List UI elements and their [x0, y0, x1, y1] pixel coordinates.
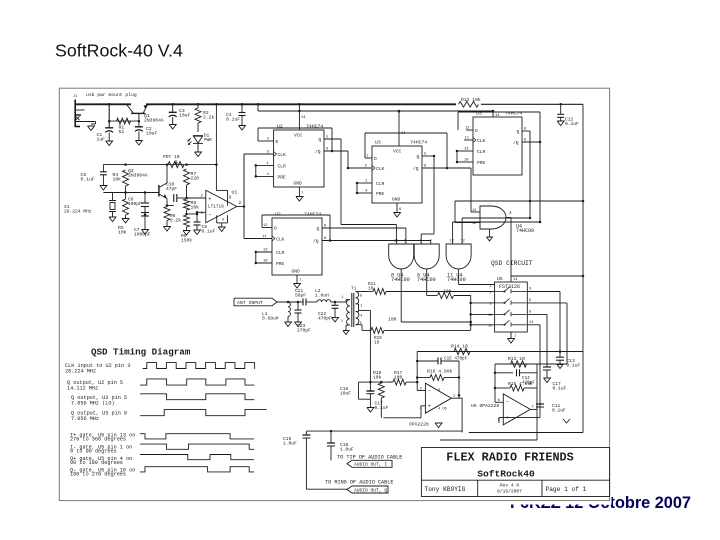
label C17a [375, 401, 389, 412]
U2a pin2 D [266, 138, 279, 146]
T1 bottom secondary wire [362, 329, 371, 331]
timing row2 label [67, 380, 123, 392]
U3a pin6 Qbar [413, 165, 447, 173]
wire q fb left [494, 364, 497, 402]
label C8 [128, 197, 142, 208]
label C9 [202, 224, 216, 235]
svg-text:1: 1 [342, 296, 344, 300]
U2b pre [255, 260, 285, 268]
svg-text:/Q: /Q [315, 149, 321, 155]
svg-text:−: − [208, 213, 211, 219]
wire control pin5 [469, 302, 494, 305]
svg-text:5: 5 [420, 240, 422, 244]
svg-text:6: 6 [222, 219, 224, 223]
label R7 [191, 171, 200, 182]
ic U2b box [272, 212, 322, 276]
label C12 [565, 117, 579, 128]
svg-text:Q: Q [319, 137, 322, 143]
label R15 [508, 381, 533, 387]
U2a pin1 CLR [255, 162, 286, 169]
label C5 [81, 172, 95, 183]
base node wire [103, 192, 158, 194]
U1 out to U2b clk [243, 154, 246, 239]
timing row7 wave [140, 455, 254, 460]
usb connector label [86, 92, 137, 98]
U3a vcc pin 14 [393, 110, 406, 154]
svg-text:Page 1 of 1: Page 1 of 1 [546, 486, 587, 493]
timing title [91, 346, 191, 357]
transformer T1 secondary [356, 292, 371, 331]
wire bottom to U5 [471, 324, 495, 326]
gate U4b output [426, 269, 428, 296]
svg-text:PRE: PRE [376, 191, 385, 197]
title block divider [421, 480, 609, 496]
label L1 [262, 311, 279, 322]
timing row8 wave [140, 467, 254, 472]
svg-text:usb pwr mount plug: usb pwr mount plug [86, 92, 137, 98]
ic U5 box [495, 276, 528, 332]
capacitor C23 [295, 302, 302, 327]
U6a output [451, 395, 462, 432]
svg-text:2.2k: 2.2k [203, 115, 214, 121]
svg-text:0.1uF: 0.1uF [565, 121, 579, 127]
ground for D1 [195, 143, 202, 156]
wire g3b [453, 221, 542, 244]
svg-text:U1: U1 [232, 190, 238, 196]
U1 input pin numbers [201, 195, 204, 217]
svg-text:CLR: CLR [477, 149, 486, 155]
U1 gnd [218, 223, 225, 232]
capacitor C5 [100, 165, 107, 190]
resistor R14 [454, 348, 470, 354]
capacitor C14 [495, 369, 537, 376]
svg-text:0.1uF: 0.1uF [552, 408, 566, 414]
wire bottom rail 3 [440, 439, 537, 441]
wire pin8 down [546, 314, 548, 367]
svg-text:GND: GND [294, 181, 303, 187]
label R16 [427, 369, 453, 375]
wire Q sample [566, 303, 568, 364]
capacitor C3 [169, 103, 177, 129]
U3b pre [456, 159, 486, 167]
svg-text:U6 OPA2228: U6 OPA2228 [471, 403, 499, 409]
U2a vcc pin 14 [294, 103, 306, 138]
label U6b pins [498, 399, 534, 423]
label R5 [118, 225, 127, 236]
U6b plus wire [499, 418, 540, 423]
U5 pin1 OE [490, 285, 492, 289]
wire v g2b [430, 241, 432, 245]
svg-text:Q: Q [517, 129, 520, 135]
wire audio bottom rail [306, 430, 462, 433]
svg-text:10k: 10k [191, 205, 200, 211]
wire bundle v g1a [395, 225, 397, 245]
svg-text:13: 13 [263, 249, 268, 253]
title block page [546, 486, 587, 493]
svg-text:10k: 10k [118, 230, 127, 236]
svg-text:U3: U3 [476, 111, 482, 117]
U5 pin6 out [527, 299, 567, 303]
svg-text:1: 1 [490, 285, 492, 289]
resistor R6 [164, 207, 171, 232]
U3b vcc [493, 111, 500, 118]
svg-text:220: 220 [443, 289, 452, 295]
U3b feedback loop [458, 112, 541, 222]
wire q fb right [536, 364, 538, 388]
svg-text:2: 2 [341, 320, 343, 324]
svg-text:10: 10 [464, 159, 469, 163]
label C22 [318, 311, 332, 322]
capacitor C1 [105, 103, 113, 145]
wire q1 bundle [340, 139, 342, 225]
resistor R12 [459, 102, 479, 108]
svg-text:270 to 360 degrees: 270 to 360 degrees [70, 437, 126, 443]
capacitor C22 [332, 302, 339, 322]
svg-text:1uF: 1uF [97, 137, 106, 143]
label X1 [64, 204, 92, 215]
title block box [421, 448, 609, 497]
U5 pin3 out [527, 288, 560, 292]
svg-text:D: D [475, 128, 478, 134]
label L2 [315, 288, 329, 299]
wire q2 bundle [347, 151, 349, 168]
U2a clr pre tie [255, 165, 257, 176]
U3b pin8 Qbar [513, 139, 540, 147]
gate U4b [414, 240, 439, 269]
U4d gnd [487, 230, 493, 242]
slide title [55, 41, 183, 61]
U5 switch 1 [490, 287, 527, 295]
timing row3 label [71, 395, 127, 407]
svg-text:14: 14 [513, 278, 518, 282]
svg-text:13: 13 [464, 148, 469, 152]
label Q1 [144, 113, 164, 124]
capacitor C16 [366, 382, 374, 399]
svg-text:CLR: CLR [276, 250, 285, 256]
capacitor C21 [297, 299, 317, 306]
resistor R2 [195, 103, 201, 132]
wire ct node [359, 381, 418, 384]
timing row1 label [65, 363, 130, 375]
U2a feedback loop [258, 128, 333, 152]
T1 top secondary wire [356, 291, 366, 293]
svg-text:8: 8 [438, 389, 440, 393]
svg-text:R12 10k: R12 10k [461, 97, 481, 103]
resistor R4 [123, 163, 129, 193]
capacitor C2 [135, 121, 143, 145]
svg-text:CLK: CLK [477, 138, 486, 144]
U5 pin11 out [527, 321, 540, 325]
label U4a [391, 273, 410, 284]
opamp U6b [503, 394, 530, 425]
U3a pre [356, 190, 385, 198]
capacitor C19 [302, 431, 310, 489]
svg-text:13: 13 [450, 240, 454, 244]
U5 vcc pin14 [511, 275, 584, 282]
svg-text:/Q: /Q [313, 239, 319, 245]
svg-text:R15 4.99k: R15 4.99k [508, 381, 533, 387]
pot trimmer [163, 154, 184, 168]
T1 center tap wire [369, 310, 371, 382]
resistor R13 [511, 361, 527, 367]
svg-text:FST3126: FST3126 [499, 284, 520, 290]
U2b pin9 Q [317, 225, 406, 233]
resistor R18 [378, 381, 384, 418]
wire gate d input b [455, 201, 480, 223]
svg-text:PRE: PRE [278, 174, 287, 180]
svg-text:74HC74: 74HC74 [410, 140, 427, 146]
U5 switch 2 [490, 298, 527, 306]
svg-text:7.056 MHz (LO): 7.056 MHz (LO) [71, 401, 115, 407]
svg-text:OPA2228: OPA2228 [409, 422, 429, 428]
capacitor C10 emitter junction [144, 206, 146, 208]
svg-text:74HC00: 74HC00 [516, 228, 534, 234]
svg-text:D: D [274, 226, 277, 232]
gate U4c [446, 240, 471, 269]
U3a pin1 D [365, 155, 377, 163]
svg-text:POT 10: POT 10 [163, 154, 180, 160]
U2a pin3 CLK [244, 151, 286, 159]
U2b pin8 Qbar [313, 237, 431, 245]
wire u3a q to g2 [421, 155, 435, 244]
wire to Q tag [306, 488, 347, 490]
title block rev [497, 482, 522, 494]
U3b pin12 D [465, 127, 478, 135]
wire pin11 down [539, 325, 541, 418]
ground for connector [88, 122, 96, 131]
label C10 [166, 182, 177, 193]
svg-text:CLK: CLK [376, 166, 385, 172]
U3b pin11 CLK [464, 137, 486, 145]
wire fb node down [416, 352, 419, 391]
svg-text:−: − [506, 400, 509, 406]
wire I sample [559, 292, 561, 352]
label R11 [368, 282, 376, 292]
resistor R11 [362, 289, 495, 295]
svg-text:U2: U2 [275, 212, 281, 218]
svg-text:VCC: VCC [294, 133, 303, 139]
wire h 201 [455, 200, 584, 203]
svg-text:Q: Q [317, 226, 320, 232]
U5 switch 3 [488, 310, 527, 318]
wire C10 to comparator node [177, 197, 188, 200]
wire g1 control [401, 321, 471, 323]
label C11 [552, 403, 570, 423]
svg-text:28.224 MHz: 28.224 MHz [65, 369, 96, 375]
label R2 [203, 110, 214, 121]
ic U2 box [274, 124, 324, 188]
capacitor C17a gnd [367, 399, 374, 412]
timing row6 label [70, 445, 132, 455]
oscillator vcc rail [103, 164, 216, 166]
U2b pin12 D [262, 224, 277, 232]
timing row4 wave [140, 409, 267, 415]
timing row1 wave [143, 363, 255, 369]
svg-text:5: 5 [360, 322, 362, 326]
label R8 [191, 200, 200, 211]
inductor L1 [285, 302, 292, 327]
svg-text:12: 12 [488, 325, 492, 329]
svg-text:14.112 MHz: 14.112 MHz [67, 386, 98, 392]
svg-text:QSD Timing Diagram: QSD Timing Diagram [91, 346, 191, 357]
capacitor C13 [556, 350, 564, 368]
wire osc to U1 plus [187, 197, 206, 199]
tag AUDIO OUT I [347, 460, 392, 467]
svg-text:11: 11 [262, 235, 267, 239]
svg-text:CLR: CLR [278, 163, 287, 169]
U2a pin5 Q [319, 136, 342, 144]
svg-text:LT1719: LT1719 [208, 204, 224, 209]
comparator U1 LT1719 [206, 190, 237, 223]
usb connector J1 body [73, 95, 96, 127]
label C21 [295, 288, 306, 299]
svg-text:4: 4 [360, 315, 362, 319]
emitter wire [166, 199, 174, 207]
svg-text:10k: 10k [113, 177, 122, 183]
svg-text:100pF: 100pF [128, 201, 142, 207]
C16 left loop [359, 382, 371, 399]
wire g3a [462, 217, 531, 244]
label C17b [553, 381, 567, 392]
resistor R5 [122, 193, 129, 224]
resistor R15 [495, 385, 537, 391]
svg-text:74HC74: 74HC74 [304, 212, 321, 218]
svg-text:R13 10: R13 10 [508, 356, 525, 362]
capacitor C18 [327, 431, 335, 460]
label R14 [451, 344, 468, 350]
svg-text:SoftRock-40 V.4: SoftRock-40 V.4 [55, 41, 183, 61]
svg-text:270pF: 270pF [297, 328, 311, 334]
wire I rail [417, 350, 583, 353]
svg-text:6: 6 [360, 295, 362, 299]
U2a gnd pin7 [294, 181, 304, 202]
timing row8 label [70, 467, 135, 477]
svg-text:AUDIO OUT, Q: AUDIO OUT, Q [354, 487, 387, 493]
vcc drop to oscillator rail and U1 pin8 [215, 103, 218, 190]
svg-text:10uF: 10uF [146, 131, 157, 137]
svg-text:Tony KB9YIG: Tony KB9YIG [425, 486, 466, 493]
svg-text:7: 7 [532, 406, 534, 410]
U1 pin6 box [217, 215, 228, 223]
resistor R20 [427, 293, 471, 299]
capacitor C8 [141, 191, 149, 212]
svg-text:2: 2 [239, 200, 242, 206]
label R4 [113, 172, 122, 183]
timing row3 wave [140, 394, 255, 400]
label C3 [179, 108, 190, 119]
tag AUDIO OUT Q [347, 486, 388, 493]
U2b clr [255, 249, 285, 257]
wire bundle h1 [341, 224, 396, 226]
svg-text:51: 51 [119, 129, 125, 135]
svg-text:47pF: 47pF [166, 186, 177, 192]
svg-text:220: 220 [191, 176, 200, 182]
gate U4a output [400, 269, 402, 322]
capacitor C4 [239, 103, 246, 130]
svg-text:U3: U3 [375, 140, 381, 146]
svg-text:28.224 MHz: 28.224 MHz [64, 209, 92, 215]
label T1 [351, 287, 362, 327]
svg-text:/Q: /Q [513, 140, 519, 146]
resistor R9 [183, 213, 190, 235]
svg-text:8/16/2007: 8/16/2007 [497, 488, 522, 494]
capacitor C7 [141, 213, 149, 235]
svg-text:74HC74: 74HC74 [306, 124, 323, 130]
svg-text:J1: J1 [73, 95, 77, 99]
svg-text:Q: Q [417, 154, 420, 160]
svg-text:7.056 MHz: 7.056 MHz [71, 416, 99, 422]
label U4d [509, 212, 534, 234]
title block author [425, 486, 466, 493]
timing row4 label [71, 411, 127, 423]
U2b gnd pin7 [292, 269, 302, 289]
timing row7 label [70, 456, 132, 466]
svg-text:0.1uF: 0.1uF [202, 229, 216, 235]
svg-text:D: D [374, 156, 377, 162]
capacitor C12 [557, 103, 564, 125]
label R12 [461, 97, 481, 103]
gate U4d [472, 206, 506, 229]
U3a feedback loop [365, 133, 448, 169]
gate U4d inputs [455, 212, 480, 223]
label R10 [388, 317, 397, 323]
svg-text:AUDIO OUT, I: AUDIO OUT, I [354, 462, 387, 468]
label audio tip [337, 454, 402, 460]
svg-text:D: D [276, 139, 279, 145]
label audio ring [325, 479, 394, 485]
svg-text:10uF: 10uF [340, 391, 351, 397]
collector wire [166, 163, 169, 183]
capacitor C17b [543, 367, 551, 383]
control bus vertical [469, 296, 472, 331]
svg-text:−: − [428, 389, 431, 395]
gate U4c output [459, 269, 495, 285]
svg-text:CLK: CLK [276, 237, 285, 243]
label C14 [522, 376, 535, 386]
U2a pin6 Qbar [315, 148, 348, 156]
x mark on connector [76, 116, 80, 120]
svg-text:T1: T1 [351, 287, 357, 292]
svg-text:10k: 10k [373, 375, 382, 381]
capacitor C9 [187, 213, 201, 235]
svg-text:U2: U2 [277, 124, 283, 130]
label C2 [146, 126, 157, 137]
U2b clr pre tie [255, 252, 257, 263]
label R19 [374, 336, 382, 346]
svg-text:180 to 270 degrees: 180 to 270 degrees [70, 472, 126, 478]
svg-text:Rev 4.0: Rev 4.0 [500, 482, 520, 488]
label C19 [283, 436, 297, 447]
wire vcc long vertical [582, 104, 584, 432]
label C18 [340, 442, 354, 453]
capacitor C11 [536, 404, 544, 407]
transistor Q2 [159, 183, 167, 199]
wire base node [109, 120, 140, 123]
U6a gnd [435, 413, 442, 428]
+5v rail after Q1 [146, 103, 456, 105]
svg-text:GND: GND [292, 269, 301, 275]
title block FLEX RADIO FRIENDS [446, 450, 573, 464]
svg-text:TO RING OF AUDIO CABLE: TO RING OF AUDIO CABLE [325, 479, 394, 485]
svg-text:+: + [428, 404, 431, 410]
vcc rail second [257, 103, 495, 112]
svg-text:14: 14 [495, 114, 500, 118]
label U1 [208, 190, 237, 210]
label R6 [170, 213, 181, 224]
label C16 [340, 386, 351, 397]
wire u3b q down [529, 131, 531, 218]
U6a plus wire [384, 406, 426, 418]
